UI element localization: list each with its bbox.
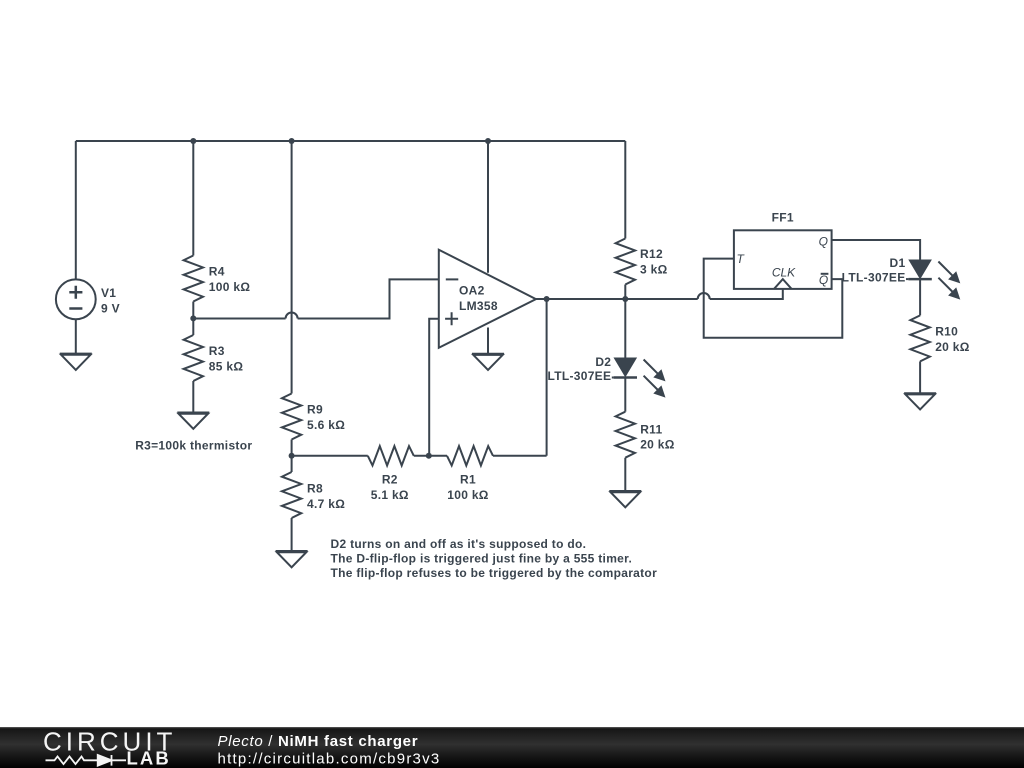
wire op-amp V- power xyxy=(487,328,489,354)
svg-text:20 kΩ: 20 kΩ xyxy=(640,438,675,452)
svg-text:R8: R8 xyxy=(307,482,323,496)
svg-text:3 kΩ: 3 kΩ xyxy=(640,262,668,276)
svg-text:FF1: FF1 xyxy=(772,211,794,225)
node junction output-feedback xyxy=(544,296,550,302)
node junction rail-opamp power xyxy=(485,138,491,144)
svg-text:D2: D2 xyxy=(595,355,611,369)
op-amp OA2 xyxy=(439,250,536,348)
ground under R3 xyxy=(177,413,209,429)
wire R11 bottom lead xyxy=(624,458,626,491)
wire R12 bottom lead xyxy=(624,285,626,300)
wire op-amp V+ power xyxy=(487,141,489,273)
footer bar xyxy=(0,727,1024,768)
wire T to Q-bar feedback loop xyxy=(704,259,843,338)
resistor R1 xyxy=(447,446,493,465)
svg-text:LTL-307EE: LTL-307EE xyxy=(842,270,906,284)
resistor R9 xyxy=(282,394,301,440)
svg-text:Q: Q xyxy=(819,273,828,287)
wire feedback down xyxy=(546,299,548,456)
node junction R9-R8-R2 xyxy=(289,453,295,459)
resistor R11 xyxy=(616,412,635,458)
ground under op-amp xyxy=(472,354,504,370)
node junction output-R12 xyxy=(622,296,628,302)
svg-text:4.7 kΩ: 4.7 kΩ xyxy=(307,497,345,511)
resistor R3 xyxy=(184,335,203,381)
svg-text:R3: R3 xyxy=(209,344,225,358)
svg-text:100 kΩ: 100 kΩ xyxy=(209,280,251,294)
svg-text:Q: Q xyxy=(819,234,828,248)
ground under R8 xyxy=(276,551,308,567)
resistor R10 xyxy=(910,315,929,361)
wire R9 bottom lead xyxy=(291,440,293,456)
ground under R10 xyxy=(904,393,936,409)
svg-text:5.6 kΩ: 5.6 kΩ xyxy=(307,418,345,432)
svg-text:D2 turns on and off as it's su: D2 turns on and off as it's supposed to … xyxy=(331,537,587,551)
wire top rail xyxy=(76,140,626,142)
wire plus input stub down to R2/R1 node xyxy=(429,319,439,456)
resistor R8 xyxy=(282,472,301,518)
svg-text:LTL-307EE: LTL-307EE xyxy=(547,369,611,383)
svg-text:100 kΩ: 100 kΩ xyxy=(447,488,489,502)
node junction R2-R1-plus input xyxy=(426,453,432,459)
wire R3 top lead xyxy=(192,318,194,335)
op-amp plus sign xyxy=(445,312,458,325)
wire D1 to R10 xyxy=(919,279,921,315)
svg-text:R1: R1 xyxy=(460,473,476,487)
wire R8 top lead xyxy=(291,456,293,472)
wire R12 column from rail xyxy=(624,141,626,239)
svg-text:OA2: OA2 xyxy=(459,284,485,298)
svg-text:20 kΩ: 20 kΩ xyxy=(935,340,970,354)
svg-text:85 kΩ: 85 kΩ xyxy=(209,359,244,373)
wire R3 bottom lead xyxy=(192,381,194,413)
op-amp minus sign xyxy=(446,278,459,280)
svg-text:5.1 kΩ: 5.1 kΩ xyxy=(371,488,409,502)
wire V1 bottom xyxy=(75,319,77,353)
wire R9 column from rail xyxy=(291,141,293,394)
wire op-amp output xyxy=(536,298,625,300)
wire D1 leader dash xyxy=(906,278,908,280)
svg-text:R4: R4 xyxy=(209,265,225,279)
clock wedge on FF1 xyxy=(774,279,792,289)
svg-text:LM358: LM358 xyxy=(459,299,498,313)
wire from R4/R3 node to minus input (with hop over R9 column) xyxy=(193,279,438,318)
resistor R12 xyxy=(616,239,635,285)
logo resistor-diode glyph xyxy=(46,755,127,766)
wire R4 column top xyxy=(192,141,194,256)
svg-text:http://circuitlab.com/cb9r3v3: http://circuitlab.com/cb9r3v3 xyxy=(218,751,441,768)
flip-flop FF1 box xyxy=(734,230,832,289)
wire R2 to R1 xyxy=(414,455,447,457)
resistor R2 xyxy=(368,446,414,465)
wire V1 top xyxy=(75,141,77,279)
svg-text:Plecto / NiMH fast charger: Plecto / NiMH fast charger xyxy=(218,733,419,750)
wire output to CLK (with hop over flip-flop loop) xyxy=(625,289,783,299)
wire output node to D2 xyxy=(624,299,626,358)
svg-text:The flip-flop refuses to be tr: The flip-flop refuses to be triggered by… xyxy=(331,566,658,580)
ground under R11 xyxy=(609,491,641,507)
ground under V1 xyxy=(60,354,92,370)
svg-text:CLK: CLK xyxy=(772,265,796,279)
node junction R4-R3 xyxy=(190,315,196,321)
wire D2 leader dash xyxy=(612,377,614,379)
svg-text:D1: D1 xyxy=(890,256,906,270)
LED D1 xyxy=(908,260,959,298)
wire R1 to feedback corner xyxy=(493,455,547,457)
svg-text:R11: R11 xyxy=(640,422,662,436)
svg-text:R3=100k thermistor: R3=100k thermistor xyxy=(135,438,252,452)
resistor R4 xyxy=(184,256,203,302)
svg-text:The D-flip-flop is triggered j: The D-flip-flop is triggered just fine b… xyxy=(331,552,633,566)
node junction rail-R4 column xyxy=(190,138,196,144)
wire R10 bottom lead xyxy=(919,361,921,393)
wire D2 to R11 xyxy=(624,378,626,412)
svg-text:V1: V1 xyxy=(101,286,116,300)
wire R4 bottom lead xyxy=(192,302,194,319)
voltage source V1 xyxy=(56,279,96,319)
node junction rail-R9 column xyxy=(289,138,295,144)
svg-text:R10: R10 xyxy=(935,325,958,339)
wire Q output to D1 xyxy=(832,240,921,260)
LED D2 xyxy=(614,358,665,396)
svg-text:9 V: 9 V xyxy=(101,301,120,315)
svg-text:R2: R2 xyxy=(382,473,398,487)
svg-text:R12: R12 xyxy=(640,247,663,261)
svg-text:LAB: LAB xyxy=(127,748,171,768)
wire R8 bottom lead xyxy=(291,518,293,551)
wire bottom row R9 node to R2 xyxy=(292,455,368,457)
svg-text:R9: R9 xyxy=(307,403,323,417)
